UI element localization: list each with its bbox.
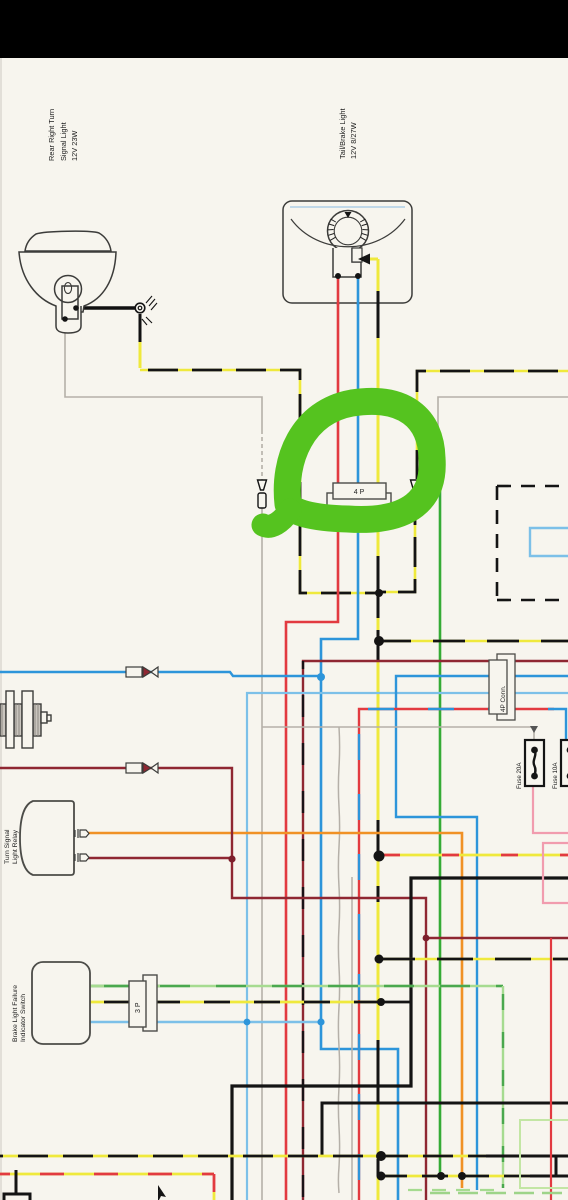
- wire: black y959 branch and yellow/black dashed to right: [379, 958, 568, 961]
- left scan edge: [0, 58, 2, 1200]
- wire: yellow/black dashed horizontal y641 to right edge: [379, 640, 568, 643]
- inline connector on maroon wire y768: [126, 763, 158, 773]
- inline connector on blue wire y672: [126, 667, 158, 677]
- svg-text:Light Relay: Light Relay: [12, 829, 19, 864]
- turn signal lamp body: [19, 231, 116, 333]
- wire: green vertical from right bullet to bottom junction: [439, 490, 442, 1176]
- wire: maroon y938 dot: [423, 935, 430, 942]
- brake light failure indicator switch box: [32, 962, 90, 1044]
- svg-text:3 P: 3 P: [135, 1002, 142, 1013]
- tail/brake light body: [283, 201, 412, 303]
- svg-text:Fuse 10A: Fuse 10A: [552, 762, 559, 789]
- wire: grey top right horizontal and drop to bullet: [438, 397, 568, 484]
- 4P Conn connector: [489, 654, 515, 720]
- dashed box top right: [497, 486, 568, 600]
- wire: black then yellow drop from ground bolt: [139, 314, 142, 368]
- wire: yellow/black dashed top right horizontal: [417, 371, 568, 479]
- wire: yellow/black dashed bottom y1156: [0, 1155, 568, 1158]
- label: Rear Right Turn Signal Light 12V 23W: [47, 109, 79, 161]
- wire: maroon horizontal y661 and dashed vertical x303: [303, 661, 568, 1200]
- junction dots: [228, 589, 466, 1181]
- tail light terminals: [335, 273, 361, 279]
- wire: yellow/black dashed from ground to x300 and down to junction row: [140, 370, 378, 593]
- wire: pink right edge jog: [543, 843, 568, 1200]
- wire: yellow/black below right bullet to junction: [379, 497, 415, 592]
- bottom black arrow mark: [158, 1185, 166, 1200]
- wire: black link right edge: [555, 1156, 558, 1176]
- wire: bottom black right: [430, 1192, 568, 1194]
- wire: red/blue striped vertical x359 and horizontal y708: [359, 709, 566, 1200]
- wire: yellow lead with arrow into tail light: [366, 258, 378, 261]
- svg-text:Brake Light Failure: Brake Light Failure: [12, 985, 19, 1042]
- svg-text:Fuse 20A: Fuse 20A: [516, 762, 523, 789]
- label: Turn Signal Light Relay: [4, 829, 19, 864]
- relay terminal screws: [75, 829, 89, 862]
- turn signal light relay box: [20, 801, 74, 875]
- wire: bottom pale green dashes: [408, 1189, 503, 1191]
- turn signal lamp terminals: [62, 305, 79, 322]
- wire: yellow/black main vertical from tail light to bottom: [377, 259, 380, 1200]
- wire: black jog y1107 x321: [322, 1103, 568, 1156]
- wire: grey from turn signal lamp to bullet connector: [65, 320, 262, 430]
- wire: yellow/black from failure switch y1002: [90, 1001, 411, 1004]
- svg-text:Signal Light: Signal Light: [59, 122, 68, 161]
- wire: light blue from failure switch y1022: [90, 1021, 321, 1023]
- wire: light blue corner x247 down and y693 right: [247, 693, 568, 1200]
- svg-text:Tail/Brake Light: Tail/Brake Light: [338, 108, 347, 159]
- svg-text:12V 23W: 12V 23W: [70, 131, 79, 161]
- wire: yellow/red dashed bottom left y1174: [0, 1174, 214, 1200]
- tail light wire stubs over body: [338, 254, 378, 306]
- svg-text:Indicator Switch: Indicator Switch: [20, 994, 27, 1042]
- bullet connector pair on grey wire: [258, 480, 267, 508]
- top black bar: [0, 0, 568, 58]
- wire: pale green thin box bottom right: [520, 1120, 568, 1188]
- wire: black ground lead from lamp: [76, 306, 135, 309]
- wire: blue corner x396 y676 to right edge, down, jog to x477, down: [396, 676, 568, 1190]
- wire: blue from tail light down, jog left, to junction dot: [321, 277, 358, 1022]
- wire: red from tail light down, jog left, to bottom: [286, 277, 338, 1200]
- label: Brake Light Failure Indicator Switch: [12, 985, 27, 1042]
- wire: yellow/black dashed bottom y1176: [381, 1175, 568, 1178]
- svg-text:4P Conn.: 4P Conn.: [500, 685, 507, 712]
- svg-text:Turn Signal: Turn Signal: [4, 829, 11, 864]
- 3P connector: [129, 975, 157, 1031]
- green hand-drawn circle annotation: [263, 401, 432, 526]
- fuse 10A: [552, 740, 568, 789]
- wire: blue jog at bottom to x398: [321, 1022, 398, 1200]
- wire: grey wavy vertical x339: [338, 727, 339, 1193]
- fuse 20A: [516, 740, 544, 789]
- svg-text:4 P: 4 P: [354, 489, 365, 496]
- wire: grey vertical x352: [351, 877, 353, 1200]
- wire: grey vertical below left bullet to bottom: [261, 497, 263, 1200]
- wire: maroon relay lead y858: [88, 857, 232, 859]
- svg-text:Rear Right Turn: Rear Right Turn: [47, 109, 56, 161]
- wire: pale green from failure switch across to x503 and down: [90, 985, 160, 988]
- wire: orange from relay to x462 down: [88, 833, 462, 1188]
- label: Tail/Brake Light 12V 8/27W: [338, 108, 358, 159]
- wire: maroon horn feed y768 down x232: [0, 768, 426, 1200]
- svg-text:12V 8/27W: 12V 8/27W: [349, 122, 358, 159]
- wire: red/yellow striped horizontal y855: [379, 854, 568, 857]
- wire: grey horizontal y727 to fuse 20A: [262, 726, 538, 740]
- ground bolt with hatching: [135, 296, 157, 325]
- horn / magneto stack: [0, 691, 51, 748]
- connector circled: 4P connector block: [327, 483, 391, 510]
- wire: pink from fuse 20A: [533, 787, 568, 833]
- bottom left black component stub: [4, 1170, 30, 1200]
- wire: blue horizontal from left edge to tail-blue junction: [0, 672, 321, 676]
- light blue U inside dashed box: [530, 528, 568, 556]
- wire: black thick horizontal y878 and vertical x411: [232, 878, 568, 1200]
- bullet connector pair on yellow wire: [411, 480, 420, 503]
